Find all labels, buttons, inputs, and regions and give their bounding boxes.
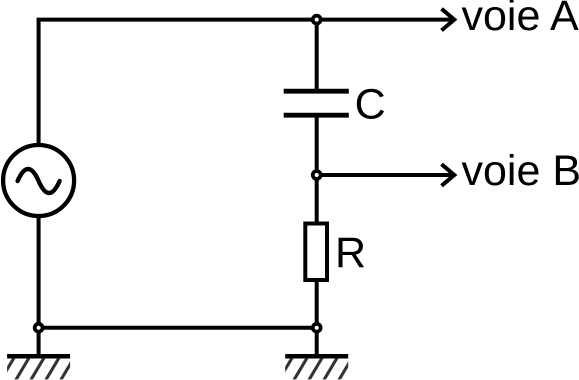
wire bottom horizontal [39,326,317,330]
wire ground stub right [315,328,319,357]
ground right bar [285,354,348,359]
wire voie B horizontal [317,173,453,177]
node B junction [313,171,321,179]
node A top junction [313,16,321,24]
svg-text:R: R [335,229,366,277]
wire voie A horizontal [317,18,453,22]
AC source V1 sine symbol [18,169,60,193]
svg-text:C: C [355,81,386,129]
wire resistor to bottom-right node [315,280,319,328]
arrowhead voie A [442,9,455,31]
wire capacitor to node B [315,117,319,175]
arrowhead voie B [442,164,455,186]
node bottom-right junction [313,324,321,332]
svg-text:voie A: voie A [462,0,579,40]
resistor R body [305,224,327,281]
node bottom-left junction [35,324,43,332]
wire node A down to capacitor [315,20,319,89]
wire from source top to top-left corner to node A [39,20,317,146]
wire from source bottom to bottom-left node [37,216,41,328]
capacitor C plates [284,91,349,115]
svg-text:voie B: voie B [462,147,579,195]
wire node B down to resistor [315,175,319,224]
ground left hatching [1,357,75,380]
ground right hatching [279,357,353,380]
wire ground stub left [37,328,41,357]
ground left bar [7,354,70,359]
AC source V1 circle [3,145,74,216]
